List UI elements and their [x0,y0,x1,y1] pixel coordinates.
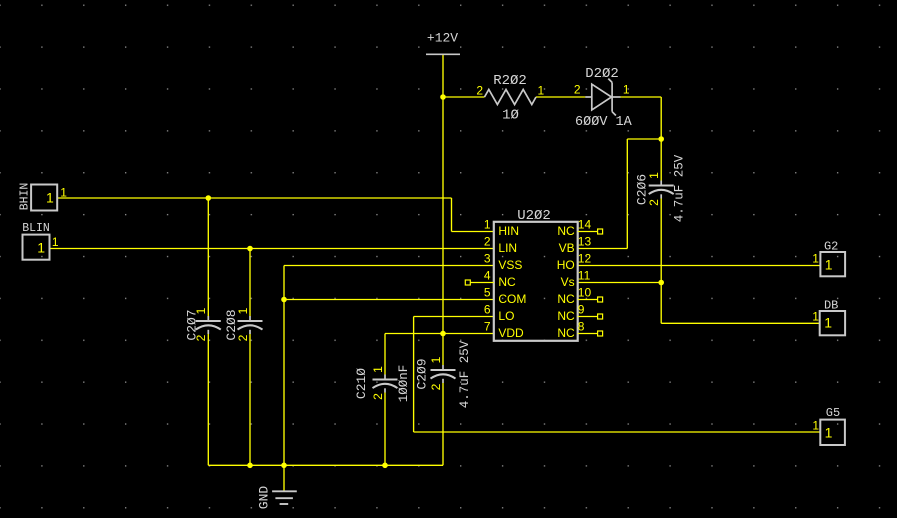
svg-text:3: 3 [484,252,491,266]
svg-text:5: 5 [484,286,491,300]
svg-text:U2Ø2: U2Ø2 [517,208,551,224]
svg-text:GND: GND [256,486,271,510]
svg-text:1: 1 [647,172,661,179]
svg-text:6ØØV 1A: 6ØØV 1A [575,115,633,130]
svg-text:1: 1 [236,307,250,314]
svg-text:1: 1 [60,186,67,200]
svg-text:NC: NC [557,326,575,340]
svg-text:BLIN: BLIN [22,222,50,235]
svg-text:4.7uF 25V: 4.7uF 25V [672,154,686,222]
svg-text:G5: G5 [826,406,840,420]
svg-text:C2Ø9: C2Ø9 [415,358,430,389]
svg-text:1: 1 [52,235,59,249]
svg-text:VSS: VSS [498,258,522,272]
svg-text:NC: NC [557,309,575,323]
svg-text:2: 2 [429,383,443,390]
svg-text:6: 6 [484,303,491,317]
svg-text:VDD: VDD [498,326,524,340]
svg-text:1: 1 [812,418,819,432]
svg-text:1: 1 [824,314,832,330]
svg-text:1: 1 [812,309,819,323]
svg-text:1ØØnF: 1ØØnF [397,365,411,403]
svg-text:11: 11 [578,269,591,283]
svg-text:R2Ø2: R2Ø2 [493,73,527,89]
svg-text:NC: NC [557,224,575,238]
svg-text:LO: LO [498,309,514,323]
svg-text:2: 2 [574,83,581,97]
svg-text:7: 7 [484,320,491,334]
svg-text:1: 1 [194,307,208,314]
svg-text:G2: G2 [824,240,838,254]
svg-text:LIN: LIN [498,241,517,255]
svg-text:14: 14 [578,218,592,232]
svg-text:BHIN: BHIN [19,183,32,211]
svg-text:12: 12 [578,252,592,266]
svg-text:D2Ø2: D2Ø2 [585,66,619,82]
svg-text:HIN: HIN [498,224,519,238]
svg-text:COM: COM [498,292,526,306]
svg-text:1: 1 [371,366,385,373]
svg-text:NC: NC [498,275,516,289]
svg-text:13: 13 [578,235,592,249]
svg-text:DB: DB [824,299,838,313]
svg-text:2: 2 [194,334,208,341]
svg-text:4: 4 [484,269,491,283]
svg-text:VB: VB [559,241,575,255]
svg-text:2: 2 [371,393,385,400]
svg-text:8: 8 [578,320,585,334]
svg-text:1: 1 [623,83,630,97]
svg-text:Vs: Vs [561,275,575,289]
svg-text:10: 10 [578,286,592,300]
svg-text:1: 1 [812,252,819,266]
svg-text:C21Ø: C21Ø [354,368,369,399]
svg-text:1Ø: 1Ø [502,108,519,124]
svg-text:NC: NC [557,292,575,306]
svg-text:4.7uF 25V: 4.7uF 25V [458,340,472,408]
svg-text:2: 2 [236,334,250,341]
svg-text:1: 1 [37,240,45,256]
svg-text:1: 1 [484,218,491,232]
svg-text:1: 1 [825,257,833,273]
svg-text:2: 2 [476,84,483,98]
svg-text:1: 1 [825,425,833,441]
svg-text:1: 1 [429,356,443,363]
svg-text:1: 1 [538,84,545,98]
svg-text:2: 2 [484,235,491,249]
svg-text:1: 1 [46,190,54,206]
svg-text:2: 2 [647,199,661,206]
svg-text:9: 9 [578,303,585,317]
svg-text:+12V: +12V [427,31,458,46]
svg-text:HO: HO [557,258,575,272]
